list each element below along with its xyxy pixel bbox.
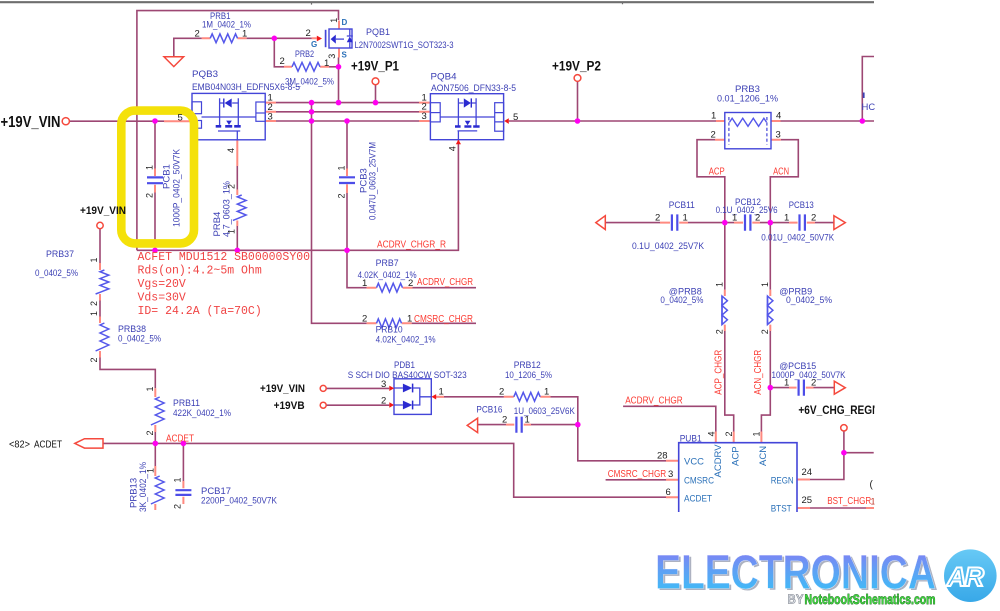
svg-text:+19V_VIN: +19V_VIN (260, 383, 305, 395)
resistor PRB4 (233, 195, 246, 220)
connector ref 82 ACDET (9, 439, 62, 450)
svg-text:1: 1 (173, 477, 183, 482)
wire +19V_VIN to PQB3 pin5 (69, 120, 164, 122)
svg-text:S SCH DIO BAS40CW SOT-323: S SCH DIO BAS40CW SOT-323 (348, 370, 467, 381)
resistor PRB7 (377, 283, 403, 292)
net label ACP_CHGR rotated (714, 350, 725, 395)
fragment HC component cut (863, 93, 865, 99)
svg-text:2: 2 (811, 212, 816, 223)
svg-text:VCC: VCC (684, 457, 704, 468)
svg-text:5: 5 (178, 112, 183, 123)
sheet border top (0, 2, 874, 5)
wire +19V_P2 drop (577, 81, 579, 121)
logo NotebookSchematics.com (805, 592, 936, 607)
svg-text:2: 2 (755, 212, 760, 223)
svg-text:BY: BY (788, 592, 804, 607)
pin stubs PRB38 (99, 317, 101, 358)
pins PCB11 (655, 212, 688, 223)
pins PQB3 (178, 93, 273, 153)
svg-text:1: 1 (329, 18, 339, 23)
pins PRB10 (362, 314, 412, 325)
pin stubs PQB4 (419, 103, 458, 144)
wire PRB13 branch (154, 443, 156, 466)
logo ELECTRONICA (655, 547, 938, 602)
wire bus line2 PQB3 pin2 to PQB4 pin2 (276, 111, 419, 113)
pin stubs PRB13 (154, 466, 156, 510)
pins PCB3 (337, 165, 347, 198)
svg-text:CMSRC: CMSRC (684, 476, 714, 487)
svg-text:0.1U_0402_25V7K: 0.1U_0402_25V7K (632, 241, 705, 252)
wire ACDRV_CHGR_R top loop from PQB1 drain (137, 11, 339, 251)
svg-text:1000P_0402_50V7K: 1000P_0402_50V7K (172, 148, 183, 227)
svg-text:4: 4 (226, 148, 236, 153)
wire PRB7 pin2 out (413, 287, 477, 289)
pin stubs PRB3 (715, 121, 781, 140)
svg-text:ACN_CHGR: ACN_CHGR (753, 350, 764, 395)
svg-text:1U_0603_25V6K: 1U_0603_25V6K (514, 406, 576, 417)
svg-text:2: 2 (306, 28, 311, 39)
svg-text:D: D (342, 18, 348, 27)
svg-text:S: S (342, 51, 348, 60)
svg-text:2: 2 (145, 193, 155, 198)
label PCB3 rotated (359, 142, 379, 220)
wire ACN_CHGR down to PUB1 pin1 (761, 223, 770, 432)
wire PQB1 source to bus line1 (338, 58, 340, 103)
svg-text:PCB16: PCB16 (476, 404, 502, 415)
svg-text:PQB1: PQB1 (366, 27, 390, 38)
power port +6V_CHG_REGN (841, 425, 847, 431)
svg-text:1: 1 (715, 282, 725, 287)
svg-text:2: 2 (89, 301, 99, 306)
svg-text:L2N7002SWT1G_SOT323-3: L2N7002SWT1G_SOT323-3 (355, 40, 454, 51)
svg-text:0.01U_0402_50V7K: 0.01U_0402_50V7K (761, 232, 835, 243)
svg-text:28: 28 (657, 451, 668, 462)
label PRB4 rotated (212, 180, 233, 237)
svg-text:1: 1 (407, 314, 412, 325)
svg-text:3: 3 (668, 469, 673, 480)
svg-text:EMB04N03H_EDFN5X6-8-5: EMB04N03H_EDFN5X6-8-5 (192, 82, 300, 93)
svg-text:1: 1 (145, 386, 155, 391)
pin stubs PCB12 (734, 222, 760, 224)
pins PCB15 (784, 378, 816, 389)
svg-text:6: 6 (666, 487, 671, 498)
net label ACDRV_CHGR_R (377, 239, 446, 250)
svg-text:+19V_VIN: +19V_VIN (80, 205, 126, 217)
label PDB1 (348, 360, 467, 381)
port arrow PCB16 left (467, 418, 477, 432)
pins PRB38 (89, 311, 99, 363)
pins PCB16 (502, 414, 530, 425)
pin names PUB1 (684, 457, 794, 515)
label PRB2 (285, 49, 334, 88)
svg-text:2: 2 (381, 396, 386, 407)
svg-text:PCB13: PCB13 (789, 200, 814, 211)
svg-text:+19VB: +19VB (274, 400, 305, 412)
svg-text:2: 2 (760, 329, 770, 334)
svg-text:1: 1 (525, 414, 530, 425)
svg-text:1: 1 (89, 257, 99, 262)
label PRB7 (358, 258, 417, 281)
svg-text:Vgs=20V: Vgs=20V (138, 278, 186, 291)
label PCB1 rotated (162, 148, 183, 227)
resistor PRB1 (210, 34, 237, 43)
power port +19V_VIN (62, 118, 69, 125)
label PRB12 (505, 360, 552, 381)
svg-text:0_0402_5%: 0_0402_5% (35, 268, 78, 279)
svg-text:ACP: ACP (731, 446, 742, 466)
mosfet PQB4 (430, 94, 508, 145)
net label ACDRV_CHGR (417, 277, 473, 288)
pin stubs PQB1 (312, 21, 339, 58)
svg-text:3: 3 (268, 111, 273, 122)
pins PRB11 (145, 386, 155, 435)
label PRB11 (173, 398, 231, 419)
capacitor PCB1 (147, 177, 163, 183)
svg-text:2: 2 (145, 430, 155, 435)
svg-text:1: 1 (439, 386, 444, 397)
svg-text:1: 1 (337, 165, 347, 170)
wire +19V_VIN left column through PRB37 PRB38 PRB11 (100, 229, 155, 444)
svg-text:1: 1 (732, 212, 737, 223)
wire PRB1 pin2 to ground (174, 38, 202, 57)
svg-text:3: 3 (327, 54, 337, 59)
power label +19VB (274, 400, 305, 412)
svg-text:+19V_VIN: +19V_VIN (1, 114, 61, 131)
power port +19V_VIN 2 (97, 222, 103, 228)
net label ACDET (166, 433, 194, 444)
pin stubs PUB1 right (797, 480, 874, 509)
wire ACP_CHGR down to PUB1 pin2 (725, 223, 734, 432)
label PUB1 (680, 434, 702, 445)
wire CMSRC_CHGR to PUB1 pin3 (606, 479, 666, 481)
power label +19V_VIN 3 (260, 383, 305, 395)
port arrow ACP filter left (596, 216, 606, 230)
svg-text:2: 2 (655, 212, 660, 223)
power port +19V_P1 (372, 78, 379, 85)
ground (164, 57, 184, 67)
svg-text:ACDRV_CHGR: ACDRV_CHGR (625, 396, 683, 407)
wire PRB12 pin1 to VCC branch (550, 397, 666, 461)
wire PCB16 line (478, 424, 578, 426)
svg-text:2: 2 (724, 431, 734, 436)
wire +19V_VIN to PDB1 pin3 (326, 387, 389, 389)
power label +19V_P2 (552, 59, 601, 74)
svg-text:1000P_0402_50V7K: 1000P_0402_50V7K (772, 370, 847, 381)
pin stubs PRB10 (367, 322, 412, 324)
capacitor PCB13 (800, 214, 805, 230)
svg-text:REGN: REGN (771, 476, 794, 487)
label PQB3 (192, 69, 300, 93)
fragment paren (870, 480, 874, 491)
label PCB15 (772, 361, 847, 381)
svg-text:10_1206_5%: 10_1206_5% (505, 370, 552, 381)
mosfet PQB3 (192, 93, 265, 139)
svg-text:2: 2 (711, 130, 716, 141)
pin PRB13 (146, 468, 156, 473)
net label BST_CHGR (827, 496, 871, 507)
pins PCB17 (173, 477, 183, 509)
label PCB11 (632, 200, 705, 252)
pins PCB13 (784, 212, 816, 223)
pin stubs PCB1 (154, 169, 156, 193)
ic PUB1 (679, 443, 797, 512)
svg-text:2: 2 (337, 193, 347, 198)
svg-text:24: 24 (802, 467, 813, 478)
svg-text:ID= 24.2A (Ta=70C): ID= 24.2A (Ta=70C) (138, 305, 262, 318)
svg-text:2: 2 (715, 329, 725, 334)
svg-text:ACDRV: ACDRV (713, 444, 724, 478)
svg-text:1: 1 (242, 28, 247, 39)
wire PRB2 pin1 to PQB1 source node (329, 66, 339, 68)
capacitor PCB15 (799, 380, 804, 396)
pin letters PQB1 (311, 18, 348, 60)
svg-text:1: 1 (784, 212, 789, 223)
svg-text:Vds=30V: Vds=30V (138, 291, 186, 304)
svg-text:Rds(on):4.2~5m Ohm: Rds(on):4.2~5m Ohm (138, 264, 262, 277)
svg-text:3: 3 (381, 379, 386, 390)
pin stubs PCB16 (506, 424, 531, 426)
pin stubs PDB1 (436, 396, 444, 398)
wire ACP ACN filter line (605, 222, 834, 224)
svg-text:+19V_P1: +19V_P1 (351, 59, 399, 74)
capacitor PCB3 (339, 177, 355, 183)
svg-text:+19V_P2: +19V_P2 (552, 59, 601, 74)
net label CMSRC_CHGR (414, 314, 473, 325)
svg-text:0_0402_5%: 0_0402_5% (118, 334, 161, 345)
svg-text:PCB11: PCB11 (669, 200, 695, 211)
pins PRB1 (195, 28, 248, 39)
pins PRB9 (760, 282, 770, 334)
pin stubs PRB11 (154, 388, 156, 432)
wire PQB4 pin5 to PRB3 pin1 (509, 120, 716, 122)
svg-text:5: 5 (513, 112, 518, 123)
pin stubs PCB13 (789, 222, 815, 224)
wire ACDRV_CHGR to PUB1 pin4 (623, 406, 716, 431)
svg-text:3: 3 (422, 111, 427, 122)
label PCB13 (761, 200, 835, 243)
svg-text:ACDRV_CHGR: ACDRV_CHGR (417, 277, 473, 288)
svg-text:NotebookSchematics.com: NotebookSchematics.com (805, 592, 936, 607)
svg-text:2: 2 (173, 504, 183, 509)
resistor PRB38 (96, 323, 109, 351)
pins PCB12 (732, 212, 760, 223)
label PRB10 (376, 325, 436, 346)
svg-text:2: 2 (280, 56, 285, 67)
svg-text:CMSRC_CHGR: CMSRC_CHGR (414, 314, 473, 325)
svg-text:1: 1 (227, 229, 237, 234)
svg-text:1: 1 (362, 278, 367, 289)
pins PRB3 (711, 111, 782, 141)
label PRB9 (779, 287, 832, 307)
wire node up to HC (862, 57, 874, 122)
port arrow PCB15 right (834, 381, 845, 394)
pin stubs PRB7 (367, 287, 413, 289)
svg-text:0_0402_5%: 0_0402_5% (660, 295, 703, 306)
pins PQB4 (422, 93, 519, 152)
svg-text:2: 2 (227, 184, 237, 189)
svg-text:0.047U_0603_25V7M: 0.047U_0603_25V7M (368, 142, 379, 220)
net label ACN (773, 167, 789, 178)
power port +19VB (320, 402, 326, 408)
label PRB3 (717, 84, 779, 105)
power port +19V_VIN 3 (320, 385, 326, 391)
wire PCB3 branch to PRB7 (347, 121, 367, 288)
svg-text:ACP_CHGR: ACP_CHGR (714, 350, 725, 395)
pin numbers PUB1 (657, 431, 812, 506)
power label +19V_VIN (1, 114, 61, 131)
svg-text:PUB1: PUB1 (680, 434, 702, 445)
port ACDET connector (75, 439, 103, 448)
svg-text:AON7506_DFN33-8-5: AON7506_DFN33-8-5 (431, 83, 516, 94)
svg-text:AR: AR (946, 562, 984, 592)
svg-text:ACDET: ACDET (684, 494, 712, 505)
power label +6V_CHG_REGN (798, 405, 879, 417)
label PRB38 (118, 324, 161, 345)
label PQB1 (355, 27, 454, 51)
label PQB4 (431, 72, 517, 95)
wire PRB1 pin1 to PQB1 gate (247, 37, 312, 39)
port arrow ACP filter right (834, 216, 845, 230)
label PRB1 (202, 11, 251, 30)
net label CMSRC_CHGR bottom (608, 469, 667, 480)
svg-text:ACN: ACN (773, 167, 789, 178)
svg-text:2: 2 (408, 278, 413, 289)
pins PRB12 (499, 386, 549, 397)
svg-text:2: 2 (499, 386, 504, 397)
svg-text:ACDET: ACDET (34, 439, 62, 450)
pins PRB37 (89, 257, 99, 306)
resistor PRB11 (151, 397, 164, 425)
logo BY (788, 592, 804, 607)
wire BTST out (810, 507, 866, 509)
label HC fragment (862, 102, 876, 113)
svg-text:<82>: <82> (9, 439, 30, 450)
wire PRB3 pin2 to ACP (697, 140, 725, 223)
label PRB37 (35, 249, 78, 279)
net label ACN_CHGR rotated (753, 350, 764, 395)
svg-text:PRB7: PRB7 (376, 258, 399, 269)
resistor PRB2 (292, 62, 320, 71)
sense resistor PRB3 (725, 113, 771, 149)
resistor PRB10 (377, 319, 402, 328)
wire bus line3 PQB3 pin3 to PQB4 pin3 (276, 120, 419, 122)
svg-text:CMSRC_CHGR: CMSRC_CHGR (608, 469, 667, 480)
svg-text:1: 1 (146, 468, 156, 473)
svg-text:ACP: ACP (709, 167, 725, 178)
svg-text:1: 1 (751, 431, 761, 436)
pins PDB1 (381, 379, 444, 407)
svg-text:2: 2 (362, 314, 367, 325)
svg-text:PQB3: PQB3 (192, 69, 218, 80)
svg-text:G: G (311, 40, 317, 49)
capacitor PCB11 (672, 214, 677, 230)
svg-text:1: 1 (871, 497, 876, 507)
wire PRB10 pin1 out (412, 322, 476, 324)
pin stubs PCB11 (660, 222, 688, 224)
svg-text:ACN: ACN (758, 446, 769, 466)
resistor PRB13 (151, 476, 164, 504)
power label +19V_P1 (351, 59, 399, 74)
wire PRB3 pin3 to ACN (770, 140, 798, 223)
resistor PRB8 (722, 296, 727, 325)
svg-text:2: 2 (811, 378, 816, 389)
capacitor PCB16 (516, 417, 521, 433)
svg-text:1: 1 (784, 378, 789, 389)
pin stubs PQB3 (164, 103, 276, 166)
svg-text:0.1U_0402_25V6: 0.1U_0402_25V6 (716, 205, 778, 216)
info text ACFET (138, 251, 311, 318)
svg-text:2200P_0402_50V7K: 2200P_0402_50V7K (201, 496, 278, 507)
svg-text:2: 2 (195, 28, 200, 39)
svg-text:ACDRV_CHGR_R: ACDRV_CHGR_R (377, 239, 446, 250)
label PRB13 rotated (129, 462, 149, 512)
svg-text:1: 1 (683, 212, 688, 223)
pin stubs PRB2 (284, 66, 329, 68)
wire PCB17 branch (182, 443, 184, 481)
svg-text:4: 4 (776, 111, 781, 122)
label PCB16 (476, 404, 575, 416)
svg-text:4: 4 (707, 431, 717, 436)
pins PQB1 (306, 18, 339, 59)
pins PCB1 (145, 165, 155, 198)
svg-text:3: 3 (776, 130, 781, 141)
capacitor PCB17 (175, 490, 191, 495)
pin stubs PCB17 (182, 481, 184, 504)
pin stubs PRB37 (99, 263, 101, 301)
svg-text:2: 2 (502, 414, 507, 425)
logo AR badge (944, 549, 997, 602)
svg-text:BST_CHGR: BST_CHGR (827, 496, 871, 507)
svg-text:1: 1 (145, 165, 155, 170)
power port +19V_P2 (574, 75, 581, 82)
wire ACDRV_CHGR_R horizontal to PQB4 pin4 (137, 144, 459, 250)
svg-text:PRB2: PRB2 (295, 49, 314, 60)
pins PRB8 (715, 282, 725, 334)
svg-text:HC: HC (862, 102, 876, 113)
svg-text:0.01_1206_1%: 0.01_1206_1% (717, 94, 779, 105)
pin stubs PUB1 left (666, 461, 679, 497)
pin stubs PUB1 top (716, 432, 762, 443)
dual diode PDB1 (389, 379, 436, 415)
svg-text:BTST: BTST (771, 504, 792, 515)
svg-text:1: 1 (760, 282, 770, 287)
wire PDB1 pin1 to PRB12 (436, 396, 504, 398)
power label +19V_VIN 2 (80, 205, 126, 217)
svg-text:0_0402_5%: 0_0402_5% (786, 295, 832, 306)
capacitor PCB12 (745, 214, 750, 230)
pin stubs PCB15 (789, 387, 814, 389)
svg-text:1: 1 (544, 386, 549, 397)
pin stubs PRB8 (724, 290, 726, 331)
resistor PRB12 (514, 392, 540, 401)
pin stubs PRB1 (202, 37, 247, 39)
pin stubs PRB4 (236, 190, 238, 226)
wire bus line1 PQB3 pin1 to PQB4 pin1 (276, 102, 419, 104)
svg-text:25: 25 (802, 495, 813, 506)
pin stubs PRB9 (769, 290, 771, 331)
pins PRB2 (280, 56, 330, 69)
label PCB12 (716, 197, 778, 216)
wire PQB3 pin4 to PRB4 (236, 166, 238, 250)
transistor PQB1 (317, 29, 353, 48)
wire ACDET line to PUB1 pin6 (103, 443, 666, 497)
pin names PUB1 rotated (713, 444, 769, 478)
svg-text:+6V_CHG_REGN: +6V_CHG_REGN (798, 405, 879, 417)
net label ACP (709, 167, 725, 178)
wire node to PRB2 pin2 (274, 38, 284, 67)
wire +19VB to PDB1 pin2 (326, 404, 389, 406)
svg-text:ACFET MDU1512 SB00000SY00: ACFET MDU1512 SB00000SY00 (138, 251, 311, 264)
